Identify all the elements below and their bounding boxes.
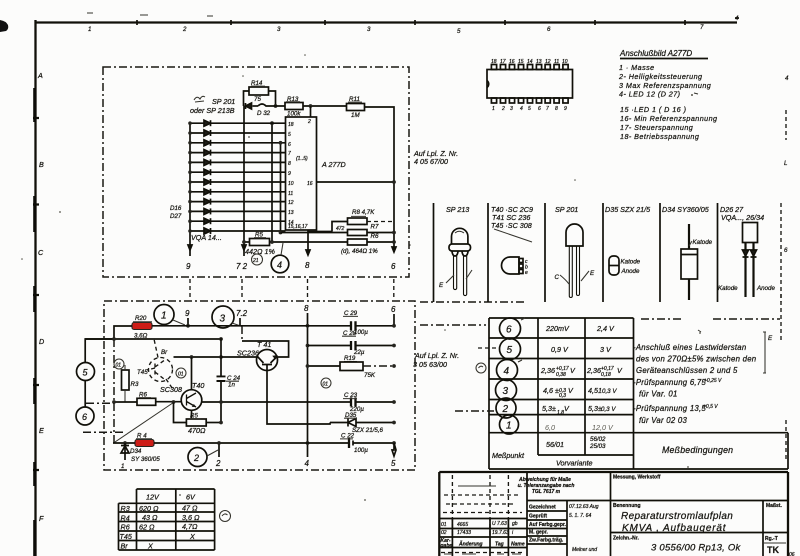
svg-text:R4: R4	[121, 514, 130, 523]
svg-text:6: 6	[784, 247, 788, 254]
svg-text:Meßbedingungen: Meßbedingungen	[662, 445, 733, 455]
dash-dot segments near right edge	[641, 318, 780, 320]
svg-text:Gezeichnet: Gezeichnet	[529, 505, 556, 511]
variant row R6	[121, 522, 198, 532]
wire R8 left	[332, 222, 348, 232]
node 3 circled row	[496, 380, 517, 401]
wire IC bottom pin8	[308, 230, 332, 255]
svg-text:E: E	[590, 270, 595, 277]
node pin16 rail	[392, 180, 396, 184]
row values 5	[551, 345, 612, 354]
svg-text:T45 ·SC 308: T45 ·SC 308	[491, 221, 532, 230]
svg-text:Zw.Farbg.träg.: Zw.Farbg.träg.	[529, 538, 564, 544]
svg-text:43 Ω: 43 Ω	[142, 513, 158, 522]
svg-text:472: 472	[336, 226, 345, 232]
svg-text:B: B	[39, 160, 44, 169]
svg-text:4: 4	[785, 75, 789, 82]
svg-text:-Prüfspannung 13,5: -Prüfspannung 13,5	[633, 404, 706, 413]
diode D27	[204, 228, 211, 234]
diode D17	[204, 130, 211, 136]
capacitor C29	[344, 310, 394, 336]
svg-text:6: 6	[288, 142, 291, 148]
svg-text:0,18: 0,18	[601, 372, 611, 378]
svg-text:16- Min Referenzspannung: 16- Min Referenzspannung	[620, 114, 718, 123]
svg-text:C: C	[38, 248, 44, 257]
node 2 circled terminal	[188, 448, 218, 467]
svg-text:Anode: Anode	[756, 285, 775, 292]
svg-text:des von 270Ω±5% zwischen den: des von 270Ω±5% zwischen den	[636, 355, 756, 364]
svg-text:Reparaturstromlaufplan: Reparaturstromlaufplan	[621, 511, 733, 522]
svg-text:4: 4	[504, 366, 510, 377]
svg-text:Melner und: Melner und	[572, 547, 597, 553]
transistor T40	[160, 381, 204, 410]
svg-text:Br: Br	[121, 542, 129, 551]
node C28 rail	[392, 344, 396, 348]
svg-text:+0,25 V: +0,25 V	[704, 378, 722, 384]
resistor R5	[186, 413, 206, 436]
svg-text:Änderung: Änderung	[458, 541, 483, 548]
svg-text:gb: gb	[512, 521, 518, 527]
terminal 6 arrowhead	[392, 247, 396, 252]
diode D32	[246, 103, 271, 117]
capacitor C22	[341, 433, 394, 455]
svg-text:3 0556/00 Rp13, Ok: 3 0556/00 Rp13, Ok	[651, 543, 742, 554]
diode D35	[330, 412, 394, 434]
svg-text:L: L	[784, 160, 788, 167]
wire R20 left + left drop	[114, 326, 132, 339]
svg-text:R19: R19	[344, 355, 356, 362]
capacitor C28	[308, 330, 395, 356]
svg-text:3 V: 3 V	[600, 345, 612, 354]
Benennung cell	[611, 501, 789, 535]
wire R14 right	[269, 91, 276, 106]
wire D32 to R13	[258, 104, 285, 106]
svg-text:SC308: SC308	[160, 385, 182, 394]
diode D18	[204, 140, 211, 146]
svg-text:220mV: 220mV	[545, 324, 570, 333]
wire row3 to R7 vertical	[280, 143, 282, 233]
svg-text:C: C	[555, 274, 560, 281]
Masstab cell	[763, 501, 782, 556]
wire R13 to R11	[303, 105, 347, 107]
svg-text:2: 2	[502, 404, 509, 415]
svg-text:6: 6	[391, 305, 396, 314]
title block outer frame	[439, 472, 788, 556]
wire diode row 10	[190, 210, 286, 212]
right edge zone dashes	[781, 110, 786, 460]
svg-text:8: 8	[555, 106, 558, 112]
svg-text:8: 8	[305, 261, 310, 270]
svg-text:47 Ω: 47 Ω	[182, 504, 198, 513]
svg-text:15,16,17: 15,16,17	[288, 224, 308, 230]
svg-text:5,3±: 5,3±	[542, 404, 556, 413]
op-amp U1 A277D IC box	[286, 117, 317, 230]
node mark circled scribble	[476, 363, 486, 373]
terminal 9 arrowhead	[188, 245, 192, 250]
wire R5-R6	[270, 241, 348, 243]
svg-text:4: 4	[277, 260, 282, 270]
svg-text:4,51: 4,51	[588, 386, 602, 395]
annotation Pruefspannung 1	[633, 378, 722, 399]
svg-text:12V: 12V	[146, 493, 160, 502]
TGL notice cell	[518, 477, 611, 501]
svg-text:D: D	[39, 337, 44, 346]
svg-text:i: i	[512, 530, 514, 536]
diode D21	[204, 169, 211, 175]
resistor R6	[137, 392, 156, 406]
wire diode row 4	[190, 152, 286, 154]
svg-text:TK: TK	[767, 545, 779, 555]
label underlines	[133, 86, 366, 439]
svg-text:6: 6	[538, 106, 541, 112]
svg-text:D34 SY360/05: D34 SY360/05	[662, 205, 710, 214]
resistor R14	[249, 87, 269, 95]
svg-text:4,7Ω: 4,7Ω	[182, 522, 198, 531]
node rail338/drop	[112, 337, 116, 341]
node mark 01 c	[321, 378, 331, 388]
node R5/C24	[219, 421, 223, 425]
svg-text:SY 360/05: SY 360/05	[131, 456, 160, 463]
svg-text:02: 02	[441, 530, 447, 536]
node 5 circled row	[500, 339, 521, 360]
wire dash below terminal6	[83, 431, 125, 433]
row values 4	[540, 366, 623, 378]
svg-text:4: 4	[735, 15, 739, 22]
svg-text:06: 06	[789, 552, 795, 556]
svg-text:01: 01	[441, 522, 447, 528]
svg-text:5: 5	[288, 132, 291, 138]
svg-text:Vorvariante: Vorvariante	[556, 459, 593, 468]
svg-text:13: 13	[288, 210, 294, 216]
wire R7 left	[281, 232, 348, 234]
wire rail y338	[85, 338, 221, 340]
svg-text:1: 1	[506, 421, 512, 432]
svg-text:25/03: 25/03	[589, 443, 606, 450]
wire diode row 7	[190, 181, 286, 183]
svg-text:01: 01	[178, 372, 184, 378]
wire R14 left	[244, 91, 250, 106]
svg-text:Auf Lpl. Z. Nr.: Auf Lpl. Z. Nr.	[414, 351, 459, 360]
svg-text:0,38: 0,38	[556, 372, 566, 378]
node 4 circled row	[497, 360, 523, 381]
svg-text:12: 12	[545, 59, 551, 65]
svg-text:01: 01	[116, 363, 122, 369]
node 21 small circle	[252, 254, 263, 265]
svg-text:1: 1	[121, 463, 124, 470]
svg-text:6: 6	[391, 262, 396, 271]
svg-text:1M: 1M	[351, 112, 360, 119]
IC package pins bottom	[491, 98, 496, 103]
svg-text:7 2: 7 2	[236, 262, 248, 271]
svg-text:4- LED 12 (D 27): 4- LED 12 (D 27)	[619, 90, 681, 99]
svg-text:SP 201: SP 201	[212, 97, 235, 106]
svg-text:12,0 V: 12,0 V	[592, 423, 614, 432]
scan blob top-left	[0, 20, 8, 32]
svg-text:T40: T40	[192, 381, 204, 390]
svg-text:Meßpunkt: Meßpunkt	[492, 451, 525, 460]
svg-text:VQA 14...: VQA 14...	[191, 233, 222, 242]
svg-text:(1..5): (1..5)	[296, 156, 308, 162]
terminal 5 rail arrow	[391, 443, 396, 468]
variant row T45	[120, 532, 197, 541]
label D26 27 VQA	[720, 205, 764, 222]
svg-text:3: 3	[367, 26, 371, 33]
wire diode row 2	[190, 132, 286, 134]
node 4 circled terminal	[271, 243, 289, 273]
revision grid	[439, 472, 527, 556]
svg-text:8: 8	[304, 304, 309, 313]
revision row 02	[441, 530, 514, 536]
svg-text:Geräteanschlüssen 2 und 5: Geräteanschlüssen 2 und 5	[636, 366, 738, 375]
svg-text:10: 10	[562, 59, 568, 65]
capacitor C23	[344, 392, 394, 413]
svg-text:SP 213: SP 213	[446, 205, 469, 214]
svg-text:5: 5	[457, 28, 461, 35]
wire y357	[174, 356, 222, 358]
svg-text:6V: 6V	[186, 493, 196, 502]
svg-text:-Prüfspannung 6,75: -Prüfspannung 6,75	[633, 378, 706, 387]
svg-text:3 05 63/00: 3 05 63/00	[413, 360, 447, 369]
svg-text:4 05 67/00: 4 05 67/00	[414, 157, 448, 166]
pin list items 1-4	[618, 63, 711, 99]
svg-text:10: 10	[288, 181, 294, 187]
svg-text:6: 6	[82, 412, 87, 422]
svg-text:Geprüft: Geprüft	[529, 514, 547, 520]
node rail338/C24	[219, 337, 223, 341]
svg-text:gabe: gabe	[440, 543, 453, 549]
svg-text:13: 13	[536, 59, 542, 65]
svg-text:9: 9	[288, 171, 291, 177]
diode D34 drawing	[681, 224, 713, 300]
resistor R20 red	[132, 315, 152, 340]
diode D22	[204, 179, 211, 185]
wire R20 right	[152, 325, 351, 327]
wire diode row 9	[190, 201, 286, 203]
svg-text:11: 11	[554, 59, 559, 65]
diode D16	[204, 120, 211, 126]
pin list items 15-18	[620, 105, 718, 141]
svg-text:Katode: Katode	[621, 259, 641, 266]
svg-text:SZX 21/5,6: SZX 21/5,6	[352, 427, 384, 434]
svg-text:17- Steuerspannung: 17- Steuerspannung	[620, 123, 693, 132]
node C23 rail	[392, 400, 396, 404]
svg-text:E: E	[439, 282, 444, 289]
svg-text:U 7.63: U 7.63	[492, 521, 507, 527]
svg-text:15 ·LED 1 ( D 16 ): 15 ·LED 1 ( D 16 )	[620, 105, 686, 114]
svg-text:100µ: 100µ	[354, 329, 368, 336]
svg-text:A 277D: A 277D	[321, 160, 346, 169]
svg-text:11: 11	[288, 191, 293, 197]
svg-text:oder SP 213B: oder SP 213B	[190, 106, 235, 115]
heading Anschlussbild	[619, 49, 708, 59]
svg-text:SP 201: SP 201	[555, 205, 578, 214]
svg-text:620 Ω: 620 Ω	[139, 504, 159, 513]
svg-text:2,36: 2,36	[540, 366, 555, 375]
svg-text:15: 15	[518, 59, 524, 65]
wire T40 collector	[191, 357, 193, 390]
svg-text:T45: T45	[120, 532, 133, 541]
svg-text:KMVA , Aufbaugerät: KMVA , Aufbaugerät	[622, 523, 727, 534]
svg-text:8: 8	[288, 161, 291, 167]
wire R5 left	[244, 241, 250, 243]
svg-text:R6: R6	[371, 233, 379, 240]
D35 package symbol	[609, 256, 641, 275]
wire terminal6 dash	[86, 402, 114, 404]
svg-text:2: 2	[182, 26, 187, 33]
svg-text:3: 3	[510, 106, 513, 112]
svg-text:18- Betriebsspannung: 18- Betriebsspannung	[620, 132, 699, 141]
node 1 circled terminal	[154, 305, 185, 326]
terminal 4 tick	[305, 459, 310, 468]
node mark 01 a	[114, 359, 124, 369]
svg-text:56/02: 56/02	[590, 436, 606, 443]
Messung Werkstoff cell	[611, 472, 661, 556]
resistor R13	[285, 103, 303, 110]
svg-text:für Var 02 03: für Var 02 03	[639, 416, 687, 425]
resistor R6u	[348, 239, 368, 245]
svg-text:2: 2	[307, 119, 311, 125]
revision header row	[440, 538, 525, 549]
Zeichnungsnummer cell	[613, 536, 742, 554]
node 6 circled row	[500, 318, 526, 339]
svg-text:2- Helligkeitssteuerung: 2- Helligkeitssteuerung	[618, 72, 702, 81]
svg-text:R3: R3	[121, 504, 130, 513]
svg-text:R7: R7	[371, 224, 379, 231]
node pin2 tap	[309, 104, 313, 108]
svg-text:+0,5 V: +0,5 V	[703, 404, 718, 410]
svg-text:2,4 V: 2,4 V	[596, 324, 615, 333]
module boundary upper dash-dot box	[103, 67, 409, 277]
svg-text:5: 5	[391, 459, 396, 468]
node 3 circled terminal	[212, 306, 242, 328]
svg-text:6,0: 6,0	[545, 423, 555, 432]
svg-text:75K: 75K	[364, 372, 376, 379]
svg-text:21: 21	[252, 258, 259, 264]
wire bottom rail y443	[113, 442, 348, 444]
row values 6	[545, 324, 615, 333]
row values 3	[543, 386, 617, 399]
terminal 8 tick	[304, 304, 309, 457]
sheet frame top border	[36, 18, 740, 25]
svg-text:R8 4,7K: R8 4,7K	[352, 209, 375, 216]
56/02 25/03 cell	[589, 436, 606, 450]
wire R6 to T40 base	[156, 401, 182, 403]
node mark 01 b	[176, 368, 186, 378]
transistor T45 dashed	[137, 339, 174, 390]
svg-text:16: 16	[307, 181, 313, 187]
scan specks	[21, 54, 701, 501]
svg-text:1: 1	[492, 106, 495, 112]
svg-text:2: 2	[501, 106, 505, 112]
wire pin2 drop	[310, 106, 312, 117]
node left drop base	[112, 400, 116, 404]
svg-text:Katode: Katode	[718, 285, 738, 292]
svg-text:7.2: 7.2	[236, 309, 248, 318]
wire diode row 12	[190, 230, 286, 232]
wire diode row 8	[190, 191, 286, 193]
svg-text:e: e	[525, 270, 528, 276]
svg-text:01: 01	[323, 382, 329, 388]
node 1 circled row	[500, 415, 519, 434]
svg-text:4: 4	[520, 106, 523, 112]
svg-text:3: 3	[220, 314, 226, 325]
wire diode row 3	[190, 142, 286, 144]
svg-text:0,3 V: 0,3 V	[601, 406, 616, 413]
table grid	[489, 318, 788, 469]
svg-text:Name: Name	[511, 542, 525, 548]
svg-text:VQA..., 26/34: VQA..., 26/34	[721, 213, 764, 222]
svg-text:E: E	[768, 335, 773, 342]
svg-text:17: 17	[500, 59, 506, 65]
IC package pins top	[491, 65, 496, 70]
scribble mark	[194, 96, 205, 102]
node D35 rail	[392, 421, 396, 425]
circled scribble right of table	[220, 511, 231, 522]
svg-text:F: F	[39, 514, 44, 523]
annotation Lastwiderstand	[633, 343, 756, 375]
svg-text:12: 12	[288, 200, 294, 206]
svg-text:18: 18	[491, 59, 497, 65]
node base/diagonal	[172, 400, 176, 404]
svg-text:14: 14	[527, 59, 533, 65]
node 5 circled terminal	[77, 363, 95, 381]
wire pin16	[317, 181, 395, 183]
svg-text:Zeichn.-Nr.: Zeichn.-Nr.	[613, 536, 639, 542]
svg-text:für Var. 01: für Var. 01	[639, 390, 678, 399]
svg-text:Anschlußbild A277D: Anschlußbild A277D	[619, 49, 692, 58]
svg-text:T45: T45	[137, 369, 148, 376]
terminal 72 arrowhead	[242, 245, 246, 250]
svg-text:Auf Farbg.gepr.: Auf Farbg.gepr.	[529, 522, 567, 528]
node 2 circled row	[496, 398, 516, 418]
svg-text:V: V	[570, 366, 576, 375]
svg-text:75: 75	[254, 96, 261, 103]
row values 1	[545, 423, 614, 432]
cell separator lines	[434, 203, 718, 302]
svg-text:-Anschluß eines Lastwiderstan: -Anschluß eines Lastwiderstan	[633, 343, 746, 352]
wire diode row 11	[190, 220, 286, 222]
svg-text:D27: D27	[170, 213, 182, 220]
node R7 rail	[392, 231, 396, 235]
svg-text:Anode: Anode	[621, 268, 640, 275]
terminal 2 tick	[215, 441, 221, 468]
svg-text:Br: Br	[161, 349, 168, 356]
wire T41 collector jog	[242, 341, 289, 357]
revision row 01	[441, 521, 518, 528]
resistor R4 red	[135, 433, 154, 447]
LED SP213 drawing	[439, 228, 472, 295]
wire bus2 vertical	[243, 106, 245, 256]
svg-text:100µ: 100µ	[354, 447, 368, 454]
svg-text:D34: D34	[130, 448, 142, 455]
svg-text:2: 2	[193, 453, 199, 463]
wire terminal5 riser	[85, 339, 114, 363]
variant table header	[146, 493, 196, 502]
svg-text:R6: R6	[121, 523, 130, 532]
svg-text:5. 1. 7. 64: 5. 1. 7. 64	[569, 513, 591, 519]
leader dash row5	[478, 347, 496, 349]
svg-text:1: 1	[88, 26, 91, 33]
diode D23	[204, 189, 211, 195]
node D34 tap	[123, 441, 127, 445]
transistor package drawing	[502, 257, 529, 276]
resistor R11	[347, 104, 365, 111]
terminal 8 arrowhead	[306, 250, 310, 255]
diode D20	[204, 159, 211, 165]
wire R11 right and vertical rail	[365, 107, 395, 252]
variant row R4	[121, 513, 200, 523]
svg-text:2,36: 2,36	[586, 366, 601, 375]
